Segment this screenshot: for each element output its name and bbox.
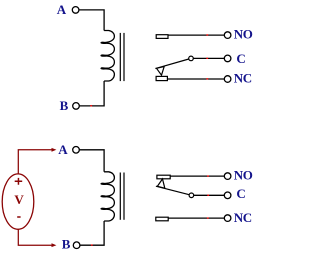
wire NC (top) [167,78,224,80]
svg-text:NO: NO [234,168,253,183]
wire A to coil (top) [79,10,104,31]
coil core line 2 (top) [123,33,125,81]
NO contact bar (top) [156,35,168,39]
svg-text:B: B [60,98,69,113]
voltage source V1 body [2,174,34,229]
junction dot on B wire (bottom) [91,244,93,245]
svg-text:V: V [14,192,24,207]
terminal NO (top) [224,32,231,39]
wire NC (bottom) [168,217,224,219]
terminal B (bottom) [73,242,80,249]
wire NO (bottom) [170,175,224,177]
svg-text:NC: NC [234,210,252,225]
svg-text:A: A [57,2,67,17]
svg-text:B: B [62,237,71,252]
wire C (top) [193,57,224,59]
relay coil K1 (top) [101,31,114,82]
wire NO (top) [168,34,224,36]
NC contact bar (top) [156,76,167,80]
junction dot NC wire (top) [206,78,208,79]
svg-text:C: C [236,186,245,201]
NO contact bar (bottom) [157,175,170,179]
pivot triangle (top) [157,67,165,76]
armature lever (bottom) [156,186,189,195]
terminal NC (top) [224,76,231,83]
coil core line 1 (top) [119,33,121,81]
junction dot C wire (top) [206,58,208,59]
junction dot NO wire (top) [206,34,208,35]
terminal NO (bottom) [224,173,231,180]
svg-text:NO: NO [234,27,253,42]
wire C (bottom) [194,194,225,196]
terminal A (top) [72,7,79,14]
minus sign [17,216,20,218]
pivot triangle (bottom) [157,179,164,188]
junction dot C wire (bottom) [207,195,209,196]
svg-text:C: C [236,51,245,66]
plus sign [15,178,23,185]
junction dot NO wire (bottom) [207,175,209,176]
lever joint circle (bottom) [189,193,194,198]
terminal NC (bottom) [224,215,231,222]
voltage source V1 wire - (to B) [18,229,53,245]
terminal A (bottom) [73,147,80,154]
terminal C (top) [224,55,231,62]
arrowhead to A [52,148,57,152]
armature lever (top) [155,59,188,69]
terminal B (top) [73,103,80,110]
svg-text:A: A [58,142,68,157]
wire coil to B (top) [79,81,104,106]
junction dot NC wire (bottom) [207,217,209,218]
voltage source V1 wire + (to A) [18,150,53,175]
NC contact bar (bottom) [156,217,168,221]
coil core line 1 (bottom) [119,173,121,220]
terminal C (bottom) [224,192,231,199]
lever joint circle (top) [189,56,194,61]
wire coil to B (bottom) [80,221,104,245]
coil core line 2 (bottom) [123,173,125,220]
arrowhead to B [52,243,57,247]
relay coil K2 (bottom) [101,172,114,221]
wire A to coil (bottom) [79,150,104,172]
junction dot on B wire (top) [90,105,92,106]
svg-text:NC: NC [234,70,252,85]
